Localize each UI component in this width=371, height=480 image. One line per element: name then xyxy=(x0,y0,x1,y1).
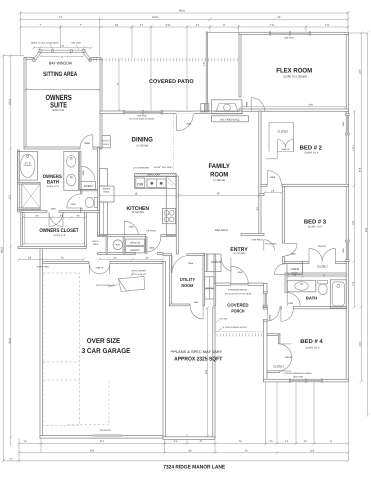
wall: flex room south / bed2 north xyxy=(239,109,349,111)
wall: kitchen west xyxy=(98,148,100,236)
svg-text:**PLANS & SPEC MAY VARY: **PLANS & SPEC MAY VARY xyxy=(170,350,223,354)
svg-text:6'8 ARCH: 6'8 ARCH xyxy=(146,230,156,233)
svg-text:SLOPE TO 9': SLOPE TO 9' xyxy=(47,185,60,188)
bottom dim extension verticals xyxy=(18,438,20,461)
door: front entry (3068) xyxy=(230,266,232,284)
door: bed3 closet double (2468 FR) xyxy=(308,248,310,261)
svg-text:SLOPE TO 9': SLOPE TO 9' xyxy=(53,234,66,237)
svg-text:14': 14' xyxy=(58,88,62,91)
svg-text:2868: 2868 xyxy=(291,252,297,255)
svg-text:SUITE: SUITE xyxy=(50,101,67,110)
svg-text:AREA: AREA xyxy=(93,243,99,246)
svg-text:12'11: 12'11 xyxy=(352,145,355,151)
svg-text:UTILITY: UTILITY xyxy=(180,277,196,282)
vanity (owners) xyxy=(64,152,79,191)
bath hall: toilet xyxy=(318,280,328,284)
wall: flex room east / house east wall xyxy=(346,35,348,382)
wall: closet strip stubs bed3 xyxy=(303,262,310,264)
svg-text:2468: 2468 xyxy=(71,203,77,206)
svg-text:16'8 DOOR: 16'8 DOOR xyxy=(99,429,111,432)
door: mudroom hall (2868) xyxy=(145,237,147,252)
svg-text:OVER SIZE: OVER SIZE xyxy=(87,338,121,345)
svg-text:2468 FR: 2468 FR xyxy=(96,266,104,269)
wall: garage east xyxy=(163,262,166,439)
svg-text:14': 14' xyxy=(60,55,64,58)
svg-text:SITTING AREA: SITTING AREA xyxy=(43,71,78,78)
svg-text:10' CEILING: 10' CEILING xyxy=(136,145,148,148)
svg-text:2468: 2468 xyxy=(51,207,57,210)
svg-text:2468: 2468 xyxy=(288,302,294,305)
wall: flex room top xyxy=(239,32,349,34)
linen owners box xyxy=(81,181,96,189)
wall: family west / kitchen east xyxy=(176,176,178,254)
window: flex room top xyxy=(270,32,310,35)
svg-text:17'1: 17'1 xyxy=(8,194,11,199)
door: wc (2468) xyxy=(67,194,81,208)
dim line: overall width 56'10 xyxy=(20,12,348,14)
door opening white gap dining xyxy=(176,111,194,114)
stove xyxy=(163,208,176,223)
door: bath hall (2468) xyxy=(286,293,288,306)
svg-text:12'6: 12'6 xyxy=(310,449,315,452)
svg-text:SLOPE TO 9': SLOPE TO 9' xyxy=(305,346,320,349)
svg-text:2468 FR: 2468 FR xyxy=(285,356,293,359)
entry door sill lines xyxy=(231,282,249,284)
wall: sitting area north left stub xyxy=(24,58,34,60)
svg-text:DW: DW xyxy=(137,182,144,186)
attic stairs sloped box xyxy=(118,277,144,292)
svg-text:10' CEILING: 10' CEILING xyxy=(233,252,246,255)
door: bed4 from hall (2468) xyxy=(280,309,282,322)
svg-text:2868: 2868 xyxy=(270,176,276,179)
wall: bath south / bed4 north xyxy=(280,307,281,309)
mech area divider wall xyxy=(106,237,108,254)
svg-text:12'11: 12'11 xyxy=(359,341,362,347)
svg-text:PORCH: PORCH xyxy=(231,309,244,314)
svg-text:WIN TRIM: WIN TRIM xyxy=(71,42,81,45)
bench column walls xyxy=(203,254,205,306)
svg-text:47'6: 47'6 xyxy=(359,167,362,172)
garage overhead door xyxy=(91,435,124,437)
svg-text:22'6: 22'6 xyxy=(205,369,208,374)
wall: owners closet xyxy=(21,211,23,249)
kitchen west cabinets xyxy=(100,169,108,187)
window: bed2 east xyxy=(346,115,349,135)
svg-text:CLOSET: CLOSET xyxy=(317,264,328,268)
svg-text:21'4: 21'4 xyxy=(100,440,105,443)
right dim line inner xyxy=(354,111,356,307)
svg-text:COVERED PATIO: COVERED PATIO xyxy=(149,79,194,85)
patio vertical dim 8' xyxy=(118,60,120,111)
door: flex room (2868) xyxy=(250,98,252,112)
svg-text:4' PLATE: 4' PLATE xyxy=(219,317,228,320)
bottom dim line 1 xyxy=(19,443,348,445)
door: utility to rear porch (2868) xyxy=(190,306,203,319)
svg-text:2650 TRIM: 2650 TRIM xyxy=(293,376,303,379)
patio east side line xyxy=(206,32,207,112)
svg-text:SLOPE TO 9' CEILING: SLOPE TO 9' CEILING xyxy=(283,75,308,79)
svg-text:SLOPE TO 9': SLOPE TO 9' xyxy=(308,225,323,228)
wall: mudroom north (kitchen south) xyxy=(98,235,146,237)
svg-text:OWNERS CLOSET: OWNERS CLOSET xyxy=(39,228,79,234)
door: pantry (2468) xyxy=(123,221,125,235)
svg-text:BED # 3: BED # 3 xyxy=(304,218,327,225)
svg-text:REFRIG: REFRIG xyxy=(103,188,111,191)
door: bed4 closet double (2468 FR) xyxy=(280,343,292,345)
svg-text:2868: 2868 xyxy=(268,314,271,320)
svg-text:BAR ARCH: BAR ARCH xyxy=(215,229,228,232)
wall: utility north xyxy=(163,254,172,256)
bay window xyxy=(34,50,92,59)
svg-text:WIN TRIM: WIN TRIM xyxy=(137,114,147,117)
svg-text:WTR/T PNNL: WTR/T PNNL xyxy=(37,266,50,269)
svg-text:24': 24' xyxy=(277,16,281,19)
wall: rear wing east xyxy=(213,307,215,437)
svg-text:SLOPE TO 9': SLOPE TO 9' xyxy=(304,151,319,154)
svg-text:BRICK TO SILL ALONG BACK: BRICK TO SILL ALONG BACK xyxy=(31,42,59,45)
svg-text:25'4: 25'4 xyxy=(90,449,95,452)
wall: entry north stub xyxy=(241,233,264,235)
wall: bath block west xyxy=(18,150,20,212)
svg-text:SPACE: SPACE xyxy=(103,143,110,146)
wall: tub/vanity divider walls xyxy=(18,183,41,185)
svg-text:12' OVERHANG: 12' OVERHANG xyxy=(133,167,149,170)
bed2 closet walls xyxy=(269,122,294,124)
svg-text:A/C FIREPLACE: A/C FIREPLACE xyxy=(220,119,240,122)
dim line: third level segments xyxy=(20,26,348,28)
door: bed2 closet bifold xyxy=(276,140,278,152)
left outer dim line 65'10 xyxy=(2,56,4,461)
tub (owners) xyxy=(18,152,38,181)
flex room dim xyxy=(241,106,346,108)
wall: utility west xyxy=(170,255,172,305)
wall: rear wing south xyxy=(163,437,215,440)
svg-text:SOAKER: SOAKER xyxy=(24,164,33,167)
right dim line outer xyxy=(366,33,368,415)
wall: entry south xyxy=(216,283,231,285)
wall: garage south xyxy=(40,436,166,439)
door: utility (2868) xyxy=(171,256,173,273)
dim extension verticals top xyxy=(19,11,21,56)
wall: linen top xyxy=(285,262,303,264)
wall: utility south xyxy=(170,304,191,306)
svg-text:2468: 2468 xyxy=(129,226,135,229)
svg-text:BATH: BATH xyxy=(306,296,317,301)
toilet (owners wc) xyxy=(85,197,93,207)
pantry walls xyxy=(123,237,125,254)
svg-text:22 1/2 x 54 1/2: 22 1/2 x 54 1/2 xyxy=(131,273,146,276)
closet bottom dim xyxy=(19,259,84,261)
door: linen hall xyxy=(275,264,285,274)
svg-text:7'11: 7'11 xyxy=(325,24,330,27)
fireplace xyxy=(212,100,243,114)
svg-text:3068: 3068 xyxy=(238,271,244,274)
svg-text:SPACE: SPACE xyxy=(103,190,110,193)
svg-text:SLOPE TO 10': SLOPE TO 10' xyxy=(52,109,64,112)
wall: west wall owners suite xyxy=(24,58,26,149)
svg-text:W/H: W/H xyxy=(116,244,121,247)
bottom dim line 3 overall xyxy=(3,460,348,462)
bottom dim line 2 xyxy=(19,452,348,454)
wall: sitting area north right stub xyxy=(91,58,101,60)
wall: bath north (closet bottom) xyxy=(285,273,347,275)
wall: garage west xyxy=(40,249,43,439)
dim line: second level 14' / 18'10 / 24' xyxy=(20,18,348,20)
svg-text:LINEN: LINEN xyxy=(84,184,93,188)
garage dashed rect xyxy=(43,273,109,426)
window: bed4 south gable xyxy=(290,379,322,382)
svg-text:ROOM: ROOM xyxy=(181,283,193,288)
dim line: bay window xyxy=(34,47,92,49)
svg-text:15': 15' xyxy=(216,193,220,196)
door: owners closet double xyxy=(48,212,50,226)
svg-text:65'10: 65'10 xyxy=(1,246,4,252)
shower (owners) xyxy=(22,184,40,208)
svg-text:BUT TOP SAME AS DOOR: BUT TOP SAME AS DOOR xyxy=(130,118,155,121)
svg-text:LINEN: LINEN xyxy=(291,267,299,271)
svg-text:OPN ARCH: OPN ARCH xyxy=(251,238,263,241)
wall: owners suite east / patio west xyxy=(100,60,102,149)
wall: house north wall (patio side) xyxy=(100,111,242,114)
svg-text:4' PORCH RISER & POST: 4' PORCH RISER & POST xyxy=(223,326,248,329)
door: bed4 from porch (2868) xyxy=(266,309,268,321)
svg-text:FAMILY: FAMILY xyxy=(208,163,230,170)
wall: hall east / bed3 west xyxy=(282,187,284,244)
svg-text:10' CEILING: 10' CEILING xyxy=(132,211,144,214)
right dim line mid xyxy=(360,33,362,382)
svg-text:2468: 2468 xyxy=(82,170,85,176)
svg-text:32'10: 32'10 xyxy=(8,337,11,343)
svg-text:CLOSET: CLOSET xyxy=(273,364,284,368)
svg-text:COVERED: COVERED xyxy=(227,303,248,308)
owners closet shelf lines xyxy=(23,243,84,245)
svg-text:5'10: 5'10 xyxy=(166,24,171,27)
kitchen snack bar counter xyxy=(135,173,177,176)
linen hall box xyxy=(287,263,303,274)
svg-text:PANTRY: PANTRY xyxy=(130,249,140,252)
door: owners suite (2868) xyxy=(80,135,93,148)
wall: bed2 south xyxy=(282,184,349,186)
door: bed3 (2868) xyxy=(285,243,297,245)
svg-text:36 3/4" TALL WALL: 36 3/4" TALL WALL xyxy=(154,166,174,169)
wall: bed4 south xyxy=(264,379,349,382)
door: bath from hall (2468) xyxy=(80,166,82,180)
door: bed2 (2868) xyxy=(266,171,268,185)
kitchen dim xyxy=(99,195,176,197)
covered patio hatch edge xyxy=(90,58,237,61)
svg-text:12'6: 12'6 xyxy=(308,104,313,107)
svg-text:2868: 2868 xyxy=(149,247,155,250)
svg-text:3'10 3/4 2'2 7/8 2'2 7/8: 3'10 3/4 2'2 7/8 2'2 7/8 3'10 3/8 xyxy=(225,292,251,295)
svg-text:HUTCH: HUTCH xyxy=(103,140,111,143)
kitchen east counter arm xyxy=(166,176,176,235)
wall: linen/bath west xyxy=(285,274,287,293)
svg-text:15'10: 15'10 xyxy=(8,98,11,104)
svg-text:2468 FR: 2468 FR xyxy=(282,148,290,151)
hall width dim xyxy=(265,192,283,194)
svg-text:18'10: 18'10 xyxy=(152,16,159,19)
svg-text:14': 14' xyxy=(59,16,63,19)
wall: entry west xyxy=(214,254,216,284)
svg-text:WIN TRIM: WIN TRIM xyxy=(284,36,294,39)
door: coats closet xyxy=(221,258,231,271)
svg-text:9' CEILING: 9' CEILING xyxy=(265,242,276,245)
window: bed4 west porch xyxy=(263,293,265,306)
wall: family room east xyxy=(259,111,261,236)
water heater xyxy=(113,240,123,250)
svg-text:PATH TO FURNACE: PATH TO FURNACE xyxy=(96,284,115,287)
svg-text:APPROX 2325 SQFT: APPROX 2325 SQFT xyxy=(174,357,223,363)
svg-text:BED # 4: BED # 4 xyxy=(300,339,324,345)
wall: bed4 closet xyxy=(267,334,280,336)
dining/family dashed separator xyxy=(173,114,175,172)
svg-text:3 CAR GARAGE: 3 CAR GARAGE xyxy=(82,348,131,355)
svg-text:10' CEILING: 10' CEILING xyxy=(213,179,225,182)
svg-text:2868: 2868 xyxy=(246,101,249,107)
svg-text:60'4: 60'4 xyxy=(365,227,368,232)
svg-text:BATH: BATH xyxy=(47,180,59,186)
svg-text:CENTER WINDOW IN GABLE: CENTER WINDOW IN GABLE xyxy=(284,372,312,375)
fireplace side shelves xyxy=(201,104,205,112)
svg-text:TRANSOM ABOVE: TRANSOM ABOVE xyxy=(228,289,248,292)
bath hall: sink counter xyxy=(287,280,316,292)
wall: garage north xyxy=(43,262,90,264)
svg-text:7324 RIDGE MANOR LANE: 7324 RIDGE MANOR LANE xyxy=(163,465,225,471)
svg-text:7'10: 7'10 xyxy=(352,281,355,286)
porch dotted edge xyxy=(216,331,264,333)
svg-text:2468 FR: 2468 FR xyxy=(318,245,327,248)
family room dim xyxy=(178,195,258,197)
svg-text:ATTIC STAIRS: ATTIC STAIRS xyxy=(131,269,146,272)
svg-text:42 x 36: 42 x 36 xyxy=(24,161,30,164)
svg-text:BAY WINDOW: BAY WINDOW xyxy=(49,61,72,66)
wall: bed4 west xyxy=(264,284,268,293)
hutch niche xyxy=(102,136,110,148)
svg-text:DINING: DINING xyxy=(132,137,153,144)
svg-text:WALK IN: WALK IN xyxy=(130,241,140,244)
left inner dim line xyxy=(10,56,12,447)
svg-text:ROOM: ROOM xyxy=(210,172,228,179)
wing interior dim xyxy=(206,308,208,437)
sitting area divider line with 14' dim xyxy=(25,88,100,90)
bath hall: tub xyxy=(330,280,346,308)
svg-text:56'10: 56'10 xyxy=(179,10,186,13)
wall: vanity east xyxy=(79,152,81,191)
svg-text:SNACK BAR: SNACK BAR xyxy=(147,174,160,177)
door: entry to hall (2868) xyxy=(263,240,265,251)
window: dining north xyxy=(124,111,162,114)
svg-text:CLOSET: CLOSET xyxy=(278,129,289,133)
hall nub wall xyxy=(259,194,264,196)
svg-text:13'6: 13'6 xyxy=(358,69,361,74)
door: garage double (2468 FR) xyxy=(88,264,90,274)
svg-text:13'2: 13'2 xyxy=(352,220,355,225)
window: bed3 east xyxy=(346,241,349,261)
wall: wc room xyxy=(81,189,98,191)
wall: mudroom south xyxy=(98,253,136,255)
owners closet dim xyxy=(23,217,85,219)
mudroom dim xyxy=(99,259,163,261)
wall: owners suite south xyxy=(24,147,80,149)
svg-text:2868: 2868 xyxy=(188,262,194,265)
svg-text:MECH: MECH xyxy=(93,240,99,243)
svg-text:COATS: COATS xyxy=(211,260,221,264)
door: patio to dining (2868) xyxy=(176,114,178,131)
svg-text:2868: 2868 xyxy=(186,122,192,125)
coats closet xyxy=(205,254,222,272)
svg-text:2868: 2868 xyxy=(84,142,90,145)
svg-text:13': 13' xyxy=(134,193,138,196)
svg-text:7'11: 7'11 xyxy=(270,24,275,27)
wall: flex room west xyxy=(239,35,241,97)
